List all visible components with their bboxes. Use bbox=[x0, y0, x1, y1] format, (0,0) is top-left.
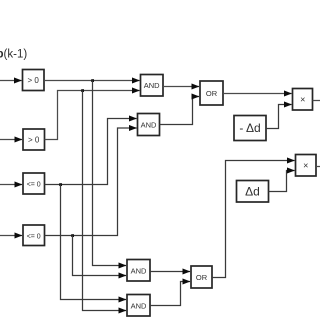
wire C4 out riser to AND2 lower input bbox=[45, 128, 137, 236]
comparator block C1 "> 0" bbox=[23, 70, 45, 91]
svg-text:<= 0: <= 0 bbox=[27, 234, 41, 241]
wire AND2 out riser to OR1 lower input bbox=[160, 97, 200, 125]
wire C1 branch down to AND3 upper input bbox=[93, 81, 127, 266]
junction on C1 wire bbox=[91, 79, 94, 82]
svg-text:×: × bbox=[300, 95, 305, 105]
logic block AND2 bbox=[138, 114, 160, 136]
wire OR1 out to product P1 upper input bbox=[223, 93, 292, 95]
svg-text:AND: AND bbox=[131, 302, 147, 311]
wire C4 branch down to AND3 lower input bbox=[73, 236, 127, 276]
comparator block C4 "<= 0" bbox=[23, 225, 45, 246]
svg-text:×: × bbox=[303, 161, 308, 171]
product block P1 "x" bbox=[293, 89, 313, 111]
wire input3 bbox=[0, 184, 22, 186]
svg-text:AND: AND bbox=[144, 81, 160, 90]
wire input4 bbox=[0, 235, 22, 237]
junction on C3 wire bbox=[59, 183, 62, 186]
svg-text:OR: OR bbox=[206, 89, 218, 98]
wire C2 branch down to AND4 lower input bbox=[83, 91, 127, 311]
svg-text:OR: OR bbox=[196, 273, 208, 282]
wire OR2 out riser to product P2 upper input bbox=[212, 161, 295, 278]
wire C3 branch down to AND4 upper input bbox=[61, 185, 127, 300]
svg-text:<= 0: <= 0 bbox=[27, 182, 41, 189]
svg-text:AND: AND bbox=[131, 267, 147, 276]
wire C2 out riser to AND1 lower input bbox=[45, 91, 140, 140]
logic block OR2 bbox=[191, 266, 212, 288]
logic block AND4 bbox=[127, 295, 150, 317]
logic block AND3 bbox=[127, 260, 150, 282]
gain block dd "Δd" bbox=[237, 181, 269, 203]
logic block OR1 bbox=[200, 81, 223, 105]
svg-text:> 0: > 0 bbox=[28, 136, 40, 145]
svg-text:Δd: Δd bbox=[245, 185, 260, 199]
svg-text:AND: AND bbox=[141, 121, 157, 130]
comparator block C2 "> 0" bbox=[23, 129, 45, 150]
wire AND3 out to OR2 upper input bbox=[150, 271, 190, 273]
wire input1 bbox=[0, 80, 22, 82]
wire AND1 out to OR1 upper input bbox=[163, 86, 199, 88]
junction on C2 wire bbox=[81, 89, 84, 92]
wire C3 out riser to AND2 upper input bbox=[45, 119, 137, 185]
logic block AND1 bbox=[141, 75, 164, 97]
svg-text:> 0: > 0 bbox=[28, 76, 40, 85]
product block P2 "x" bbox=[296, 155, 317, 177]
wire dd out riser to product P2 lower input bbox=[269, 171, 295, 192]
svg-text:p(k-1): p(k-1) bbox=[0, 49, 27, 61]
wire P2 output to right edge bbox=[316, 166, 320, 168]
wire C1 out to AND1 upper input bbox=[44, 80, 140, 82]
wire -dd out riser to product P1 lower input bbox=[266, 105, 292, 129]
gain block -dd "- Δd" bbox=[234, 116, 266, 141]
wire AND4 out riser to OR2 lower input bbox=[150, 282, 190, 306]
junction on C4 wire bbox=[71, 234, 74, 237]
wire P1 output to right edge bbox=[313, 100, 320, 102]
comparator block C3 "<= 0" bbox=[23, 173, 45, 194]
svg-text:- Δd: - Δd bbox=[239, 121, 260, 135]
wire input2 bbox=[0, 139, 22, 141]
